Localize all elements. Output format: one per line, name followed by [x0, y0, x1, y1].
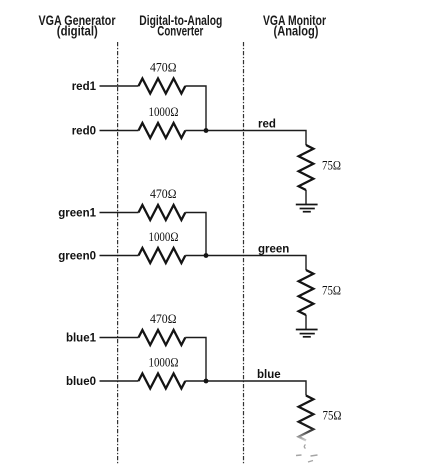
resistor 470 ohm (green1): [139, 205, 186, 220]
wire blue0 to resistor: [100, 380, 139, 382]
svg-text:1000Ω: 1000Ω: [149, 355, 179, 370]
wire green resistor to ground: [305, 315, 307, 330]
wire green0 to resistor: [100, 255, 139, 257]
svg-text:(digital): (digital): [57, 23, 98, 38]
wire red summing node to monitor corner: [185, 131, 306, 146]
boundary dashed line (DAC / monitor): [243, 42, 245, 464]
resistor 1000 ohm (blue0): [139, 374, 186, 389]
svg-text:blue0: blue0: [66, 376, 96, 388]
wire red1 resistor to corner: [185, 86, 206, 131]
svg-text:green: green: [258, 244, 289, 256]
wire blue1 resistor to corner: [185, 338, 206, 382]
junction green node: [204, 253, 209, 258]
svg-text:75Ω: 75Ω: [323, 407, 342, 422]
resistor 1000 ohm (green0): [139, 248, 186, 263]
resistor 75 ohm (green): [299, 270, 314, 315]
wire green summing node to monitor corner: [185, 256, 306, 271]
column header: VGA Monitor (Analog): [263, 13, 327, 39]
wire blue summing node to monitor corner: [185, 381, 306, 396]
svg-text:1000Ω: 1000Ω: [149, 229, 179, 244]
svg-text:75Ω: 75Ω: [322, 282, 341, 297]
svg-text:blue: blue: [257, 369, 281, 381]
svg-text:(Analog): (Analog): [274, 23, 319, 38]
svg-text:470Ω: 470Ω: [150, 311, 177, 326]
boundary dashed line (generator / DAC): [117, 42, 119, 464]
svg-text:green0: green0: [58, 251, 96, 263]
svg-text:red1: red1: [72, 81, 97, 93]
wire red1 to resistor: [100, 85, 139, 87]
column header: Digital-to-Analog Converter: [139, 13, 222, 39]
svg-text:blue1: blue1: [66, 333, 97, 345]
resistor 75 ohm (red): [299, 145, 314, 190]
column header: VGA Generator (digital): [39, 13, 117, 39]
svg-text:red: red: [258, 119, 276, 131]
resistor 75 ohm (blue, faded at bottom): [299, 396, 314, 441]
ground (blue, faded scan fragments): [296, 445, 318, 463]
svg-text:75Ω: 75Ω: [322, 157, 341, 172]
svg-text:green1: green1: [58, 208, 96, 220]
ground (red): [296, 205, 318, 212]
resistor 470 ohm (red1): [139, 79, 186, 94]
junction red node: [204, 128, 209, 133]
wire red resistor to ground: [305, 190, 307, 205]
ground (green): [296, 330, 318, 337]
svg-text:470Ω: 470Ω: [150, 60, 177, 75]
resistor 470 ohm (blue1): [139, 330, 186, 345]
svg-text:470Ω: 470Ω: [150, 186, 177, 201]
wire blue1 to resistor: [100, 337, 139, 339]
resistor 1000 ohm (red0): [139, 123, 186, 138]
wire red0 to resistor: [100, 130, 139, 132]
svg-text:red0: red0: [72, 126, 96, 138]
svg-text:Converter: Converter: [157, 23, 204, 38]
junction blue node: [204, 379, 209, 384]
svg-text:1000Ω: 1000Ω: [149, 104, 179, 119]
wire green1 resistor to corner: [185, 213, 206, 256]
wire green1 to resistor: [100, 212, 139, 214]
